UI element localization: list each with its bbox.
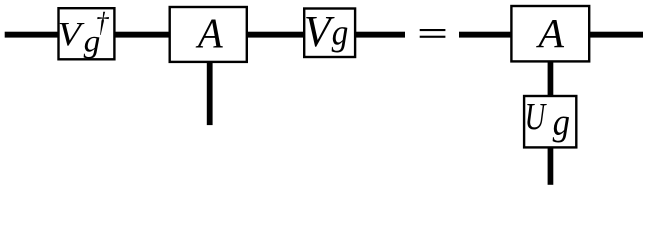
svg-text:†: †: [95, 7, 109, 38]
svg-text:g: g: [553, 101, 570, 143]
svg-text:A: A: [535, 10, 564, 56]
svg-text:A: A: [195, 10, 224, 57]
svg-text:U: U: [525, 96, 548, 138]
svg-text:g: g: [332, 11, 349, 53]
